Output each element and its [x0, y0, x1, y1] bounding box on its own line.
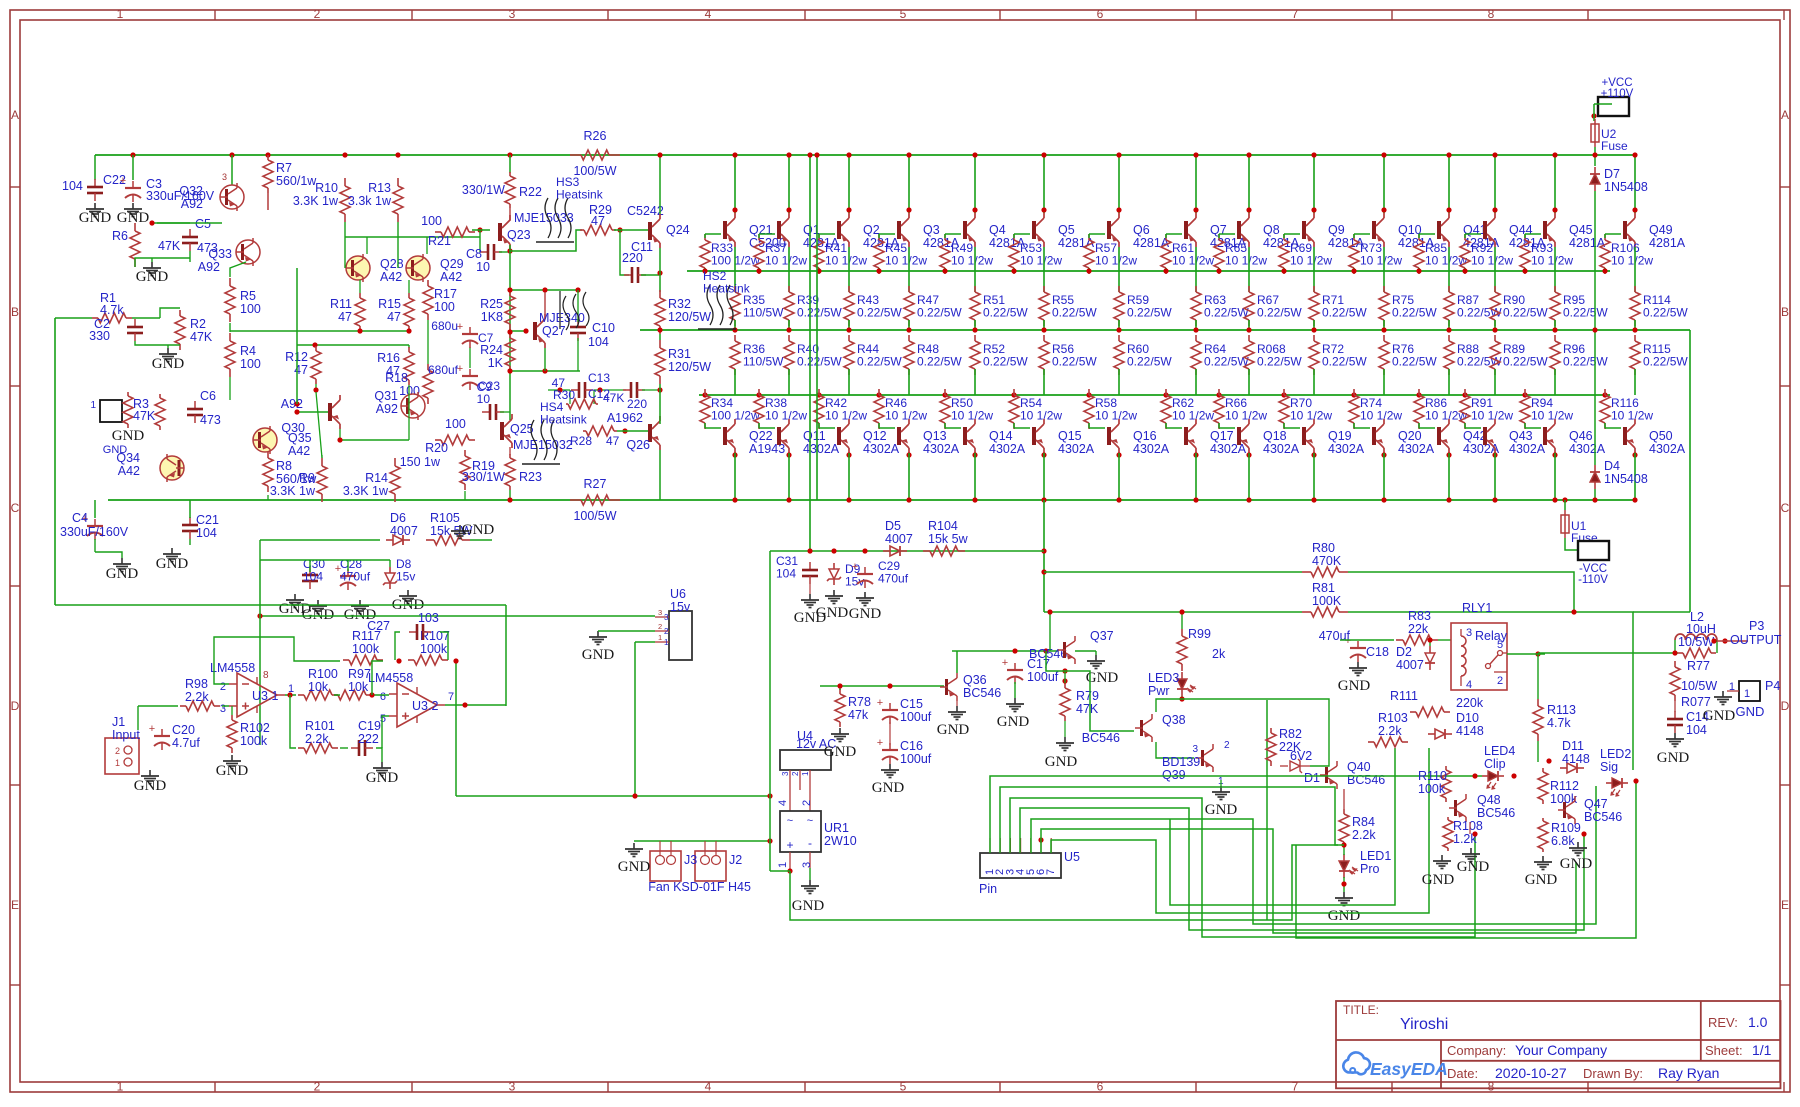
svg-text:R112: R112	[1550, 779, 1579, 793]
svg-text:Q36: Q36	[963, 673, 987, 687]
svg-text:2020-10-27: 2020-10-27	[1495, 1065, 1567, 1081]
svg-text:U3.1: U3.1	[252, 689, 278, 703]
svg-text:0.22/5W: 0.22/5W	[857, 355, 902, 369]
svg-text:U3.2: U3.2	[412, 699, 438, 713]
svg-text:10: 10	[476, 260, 490, 274]
svg-text:3.3K 1w: 3.3K 1w	[343, 484, 389, 498]
svg-text:+110V: +110V	[1601, 88, 1634, 100]
svg-text:R14: R14	[365, 471, 388, 485]
svg-text:10 1/2w: 10 1/2w	[1225, 254, 1267, 268]
svg-text:220: 220	[622, 251, 643, 265]
svg-text:A92: A92	[181, 197, 203, 211]
svg-text:Pin: Pin	[979, 882, 997, 896]
svg-text:D1: D1	[1304, 771, 1320, 785]
svg-text:1: 1	[117, 1080, 124, 1094]
svg-text:B: B	[11, 305, 19, 319]
svg-text:4302A: 4302A	[1398, 442, 1435, 456]
svg-text:R102: R102	[240, 721, 270, 735]
svg-text:4302A: 4302A	[1263, 442, 1300, 456]
svg-text:Q18: Q18	[1263, 429, 1287, 443]
svg-text:Q5: Q5	[1058, 223, 1075, 237]
svg-text:0.22/5W: 0.22/5W	[1052, 355, 1097, 369]
svg-text:680u: 680u	[431, 319, 458, 333]
svg-text:7: 7	[1045, 869, 1057, 875]
svg-text:10 1/2w: 10 1/2w	[825, 409, 867, 423]
svg-text:LED3: LED3	[1148, 671, 1179, 685]
svg-text:47K: 47K	[1076, 702, 1099, 716]
svg-text:Q28: Q28	[380, 257, 404, 271]
svg-text:0.22/5W: 0.22/5W	[1503, 355, 1548, 369]
svg-text:0.22/5W: 0.22/5W	[1643, 306, 1688, 320]
svg-text:R21: R21	[428, 234, 451, 248]
svg-text:Q17: Q17	[1210, 429, 1234, 443]
svg-text:47: 47	[294, 363, 308, 377]
svg-text:R20: R20	[425, 441, 448, 455]
svg-text:120/5W: 120/5W	[668, 310, 711, 324]
svg-text:GND: GND	[1422, 872, 1455, 888]
svg-text:4.7k: 4.7k	[100, 303, 124, 317]
svg-text:R4: R4	[240, 344, 256, 358]
svg-text:3: 3	[222, 172, 227, 182]
svg-text:0.22/5W: 0.22/5W	[1503, 306, 1548, 320]
svg-text:R24: R24	[480, 343, 503, 357]
svg-text:GND: GND	[618, 859, 651, 875]
svg-text:GND: GND	[582, 647, 615, 663]
svg-text:1N5408: 1N5408	[1604, 472, 1648, 486]
svg-text:Q14: Q14	[989, 429, 1013, 443]
svg-text:GND: GND	[134, 778, 167, 794]
svg-text:B: B	[1781, 305, 1789, 319]
svg-text:100/5W: 100/5W	[573, 164, 616, 178]
svg-text:KSD-01F H45: KSD-01F H45	[673, 880, 751, 894]
svg-text:0.22/5W: 0.22/5W	[1204, 306, 1249, 320]
svg-text:10 1/2w: 10 1/2w	[1290, 409, 1332, 423]
svg-text:GND: GND	[1525, 872, 1558, 888]
svg-text:R79: R79	[1076, 689, 1099, 703]
svg-text:GND: GND	[79, 210, 112, 226]
svg-text:330/1W: 330/1W	[462, 470, 505, 484]
svg-text:10 1/2w: 10 1/2w	[1611, 254, 1653, 268]
svg-text:GND: GND	[792, 898, 825, 914]
svg-text:OUTPUT: OUTPUT	[1730, 633, 1782, 647]
svg-text:4007: 4007	[1396, 658, 1424, 672]
svg-text:47K: 47K	[133, 409, 156, 423]
svg-text:0.22/5W: 0.22/5W	[1257, 355, 1302, 369]
svg-text:6: 6	[1097, 7, 1104, 21]
svg-text:GND: GND	[152, 356, 185, 372]
svg-text:Q26: Q26	[626, 438, 650, 452]
svg-text:GND: GND	[849, 606, 882, 622]
svg-text:0.22/5W: 0.22/5W	[1127, 306, 1172, 320]
svg-text:R78: R78	[848, 695, 871, 709]
svg-text:Q25: Q25	[510, 422, 534, 436]
svg-text:470uf: 470uf	[878, 572, 909, 586]
svg-text:3: 3	[801, 862, 813, 868]
svg-text:R9: R9	[299, 471, 315, 485]
svg-text:A92: A92	[376, 402, 398, 416]
svg-text:7: 7	[1292, 7, 1299, 21]
svg-text:P4: P4	[1765, 679, 1780, 693]
svg-text:2: 2	[658, 622, 662, 631]
svg-text:0.22/5W: 0.22/5W	[797, 355, 842, 369]
svg-text:A42: A42	[380, 270, 402, 284]
svg-text:473: 473	[200, 413, 221, 427]
svg-text:R99: R99	[1188, 627, 1211, 641]
svg-text:R077: R077	[1681, 695, 1711, 709]
svg-text:100k: 100k	[352, 642, 380, 656]
svg-text:GND: GND	[216, 763, 249, 779]
svg-text:C: C	[11, 501, 20, 515]
svg-text:GND: GND	[937, 722, 970, 738]
svg-text:10 1/2w: 10 1/2w	[765, 409, 807, 423]
svg-text:LED2: LED2	[1600, 747, 1631, 761]
svg-text:5: 5	[1497, 639, 1503, 651]
svg-text:5: 5	[900, 1080, 907, 1094]
svg-text:D: D	[1781, 699, 1790, 713]
svg-text:Q47: Q47	[1584, 797, 1608, 811]
svg-text:6: 6	[1097, 1080, 1104, 1094]
svg-text:GND: GND	[462, 522, 495, 538]
svg-text:10 1/2w: 10 1/2w	[825, 254, 867, 268]
svg-text:10 1/2w: 10 1/2w	[951, 254, 993, 268]
svg-text:R109: R109	[1551, 821, 1581, 835]
svg-text:C5: C5	[195, 217, 211, 231]
svg-text:0.22/5W: 0.22/5W	[917, 306, 962, 320]
svg-text:0.22/5W: 0.22/5W	[983, 306, 1028, 320]
svg-text:R27: R27	[584, 477, 607, 491]
svg-text:+: +	[786, 838, 793, 852]
svg-text:2k: 2k	[1212, 647, 1226, 661]
svg-text:Heatsink: Heatsink	[556, 188, 604, 202]
svg-text:Q46: Q46	[1569, 429, 1593, 443]
svg-text:R7: R7	[276, 161, 292, 175]
svg-text:C4: C4	[72, 511, 88, 525]
svg-text:D4: D4	[1604, 459, 1620, 473]
svg-text:UR1: UR1	[824, 821, 849, 835]
svg-text:EasyEDA: EasyEDA	[1370, 1059, 1448, 1079]
svg-text:4148: 4148	[1562, 752, 1590, 766]
svg-text:A42: A42	[288, 444, 310, 458]
svg-text:Q24: Q24	[666, 223, 690, 237]
svg-text:220k: 220k	[1456, 696, 1484, 710]
svg-text:R84: R84	[1352, 815, 1375, 829]
svg-text:GND: GND	[136, 269, 169, 285]
svg-text:2.2k: 2.2k	[185, 690, 209, 704]
svg-text:Q37: Q37	[1090, 629, 1114, 643]
svg-text:100k: 100k	[1418, 782, 1446, 796]
svg-text:BC546: BC546	[1029, 647, 1067, 661]
svg-text:Sig: Sig	[1600, 760, 1618, 774]
svg-text:2: 2	[220, 681, 226, 693]
svg-text:4007: 4007	[390, 524, 418, 538]
svg-text:Q43: Q43	[1509, 429, 1533, 443]
svg-text:Ray Ryan: Ray Ryan	[1658, 1065, 1719, 1081]
svg-text:R13: R13	[368, 181, 391, 195]
svg-text:R10: R10	[315, 181, 338, 195]
svg-text:100uf: 100uf	[900, 752, 932, 766]
svg-text:104: 104	[196, 526, 217, 540]
svg-text:4302A: 4302A	[863, 442, 900, 456]
svg-text:R18: R18	[385, 371, 408, 385]
svg-text:Q8: Q8	[1263, 223, 1280, 237]
svg-text:R8: R8	[276, 459, 292, 473]
svg-text:E: E	[11, 898, 19, 912]
svg-text:110/5W: 110/5W	[743, 355, 784, 369]
svg-text:C20: C20	[172, 723, 195, 737]
svg-text:D10: D10	[1456, 711, 1479, 725]
svg-text:BC546: BC546	[963, 686, 1001, 700]
svg-text:8: 8	[1488, 7, 1495, 21]
svg-text:10 1/2w: 10 1/2w	[1290, 254, 1332, 268]
svg-text:10 1/2w: 10 1/2w	[1172, 254, 1214, 268]
svg-text:D5: D5	[885, 519, 901, 533]
svg-text:BC546: BC546	[1477, 806, 1515, 820]
svg-text:3: 3	[664, 613, 669, 622]
svg-text:10 1/2w: 10 1/2w	[765, 254, 807, 268]
svg-text:15k 5w: 15k 5w	[928, 532, 969, 546]
svg-text:0.22/5W: 0.22/5W	[1643, 355, 1688, 369]
svg-text:GND: GND	[1045, 754, 1078, 770]
svg-text:Q49: Q49	[1649, 223, 1673, 237]
svg-text:10 1/2w: 10 1/2w	[1471, 254, 1513, 268]
svg-text:0.22/5W: 0.22/5W	[1204, 355, 1249, 369]
svg-text:R28: R28	[570, 434, 592, 448]
svg-text:10 1/2w: 10 1/2w	[1531, 254, 1573, 268]
svg-text:Fan: Fan	[648, 880, 670, 894]
svg-text:GND: GND	[1657, 750, 1690, 766]
svg-text:D6: D6	[390, 511, 406, 525]
svg-text:R113: R113	[1547, 703, 1576, 717]
svg-text:0.22/5W: 0.22/5W	[1392, 306, 1437, 320]
svg-text:C6: C6	[200, 389, 216, 403]
svg-text:R110: R110	[1418, 769, 1447, 783]
svg-text:7: 7	[448, 691, 454, 703]
svg-text:Fuse: Fuse	[1601, 139, 1628, 153]
svg-text:47: 47	[606, 434, 620, 448]
svg-text:D11: D11	[1562, 739, 1584, 753]
svg-text:Q20: Q20	[1398, 429, 1422, 443]
svg-text:R17: R17	[434, 287, 457, 301]
svg-text:470uf: 470uf	[1319, 629, 1351, 643]
svg-text:1: 1	[658, 633, 662, 642]
svg-text:Q11: Q11	[803, 429, 826, 443]
svg-text:R83: R83	[1408, 609, 1431, 623]
svg-text:330: 330	[89, 329, 110, 343]
svg-text:2: 2	[314, 7, 321, 21]
svg-text:BC546: BC546	[1347, 773, 1385, 787]
svg-text:0.22/5W: 0.22/5W	[1563, 306, 1608, 320]
svg-text:Q27: Q27	[542, 324, 566, 338]
svg-text:R11: R11	[330, 297, 352, 311]
svg-text:10uH: 10uH	[1686, 622, 1716, 636]
svg-text:R5: R5	[240, 289, 256, 303]
svg-text:4: 4	[777, 800, 789, 806]
svg-text:GND: GND	[1338, 678, 1371, 694]
svg-text:2: 2	[801, 800, 813, 806]
svg-text:+: +	[852, 561, 858, 573]
svg-text:10 1/2w: 10 1/2w	[1360, 409, 1402, 423]
svg-text:3.3k 1w: 3.3k 1w	[348, 194, 392, 208]
svg-text:+: +	[877, 737, 883, 749]
svg-text:3.3K 1w: 3.3K 1w	[270, 484, 316, 498]
svg-text:+: +	[149, 723, 155, 735]
svg-text:GND: GND	[156, 556, 189, 572]
svg-text:3: 3	[509, 1080, 516, 1094]
svg-text:10 1/2w: 10 1/2w	[1172, 409, 1214, 423]
svg-text:Q10: Q10	[1398, 223, 1422, 237]
svg-text:Q31: Q31	[374, 389, 398, 403]
svg-text:4302A: 4302A	[1058, 442, 1095, 456]
svg-text:GND: GND	[872, 780, 905, 796]
svg-text:10 1/2w: 10 1/2w	[1360, 254, 1402, 268]
svg-text:R32: R32	[668, 297, 691, 311]
svg-text:10 1/2w: 10 1/2w	[951, 409, 993, 423]
svg-text:47k: 47k	[848, 708, 869, 722]
svg-text:103: 103	[418, 611, 439, 625]
svg-text:Q13: Q13	[923, 429, 947, 443]
svg-text:Q30: Q30	[281, 421, 305, 435]
svg-text:REV:: REV:	[1708, 1015, 1738, 1030]
svg-text:5: 5	[900, 7, 907, 21]
svg-text:4.7uf: 4.7uf	[172, 736, 200, 750]
svg-text:3: 3	[1466, 627, 1472, 639]
svg-text:C21: C21	[196, 513, 219, 527]
svg-text:Q16: Q16	[1133, 429, 1157, 443]
svg-text:0.22/5W: 0.22/5W	[1322, 306, 1367, 320]
svg-text:10 1/2w: 10 1/2w	[1611, 409, 1653, 423]
svg-text:473: 473	[197, 241, 218, 255]
svg-text:10 1/2w: 10 1/2w	[885, 254, 927, 268]
svg-text:Q4: Q4	[989, 223, 1006, 237]
svg-text:4148: 4148	[1456, 724, 1484, 738]
svg-text:1: 1	[664, 638, 669, 647]
svg-text:Q48: Q48	[1477, 793, 1501, 807]
svg-text:1: 1	[777, 862, 789, 868]
svg-text:100uf: 100uf	[1027, 670, 1059, 684]
svg-text:~: ~	[807, 815, 813, 827]
svg-text:MJE15032: MJE15032	[513, 438, 573, 452]
svg-text:Q45: Q45	[1569, 223, 1593, 237]
svg-text:560/1w: 560/1w	[276, 174, 317, 188]
svg-text:Pwr: Pwr	[1148, 684, 1170, 698]
svg-text:LM4558: LM4558	[210, 661, 255, 675]
svg-text:R26: R26	[584, 129, 607, 143]
svg-text:0.22/5W: 0.22/5W	[983, 355, 1028, 369]
svg-text:0.22/5W: 0.22/5W	[917, 355, 962, 369]
svg-text:4302A: 4302A	[1133, 442, 1170, 456]
svg-text:7: 7	[1292, 1080, 1299, 1094]
svg-text:C18: C18	[1366, 645, 1389, 659]
svg-text:BC546: BC546	[1584, 810, 1622, 824]
svg-text:222: 222	[358, 732, 379, 746]
svg-text:Q6: Q6	[1133, 223, 1150, 237]
svg-text:100uf: 100uf	[900, 710, 932, 724]
svg-text:10 1/2w: 10 1/2w	[1020, 409, 1062, 423]
svg-text:1: 1	[1744, 688, 1750, 700]
svg-text:Your Company: Your Company	[1515, 1042, 1607, 1058]
svg-text:C: C	[1781, 501, 1790, 515]
svg-text:GND: GND	[824, 744, 857, 760]
svg-text:R111: R111	[1390, 689, 1418, 703]
svg-text:-110V: -110V	[1578, 574, 1608, 586]
svg-text:22k: 22k	[1408, 622, 1429, 636]
svg-text:1: 1	[117, 7, 124, 21]
svg-text:GND: GND	[1457, 859, 1490, 875]
svg-text:A42: A42	[440, 270, 462, 284]
svg-text:R107: R107	[420, 629, 450, 643]
svg-text:LM4558: LM4558	[368, 671, 413, 685]
svg-text:C12: C12	[588, 387, 610, 401]
svg-text:104: 104	[1686, 723, 1707, 737]
svg-text:Pro: Pro	[1360, 862, 1380, 876]
svg-text:0.22/5W: 0.22/5W	[1127, 355, 1172, 369]
svg-text:GND: GND	[1736, 704, 1765, 719]
svg-text:4302A: 4302A	[1210, 442, 1247, 456]
svg-text:Q22: Q22	[749, 429, 773, 443]
svg-text:Drawn By:: Drawn By:	[1583, 1066, 1643, 1081]
svg-text:6: 6	[380, 691, 386, 703]
svg-text:R104: R104	[928, 519, 958, 533]
svg-text:150 1w: 150 1w	[400, 455, 441, 469]
svg-text:Yiroshi: Yiroshi	[1400, 1016, 1448, 1033]
svg-text:-: -	[808, 836, 812, 850]
svg-text:110/5W: 110/5W	[743, 306, 784, 320]
svg-text:4.7k: 4.7k	[1547, 716, 1571, 730]
svg-text:GND: GND	[1328, 908, 1361, 924]
svg-text:0.22/5W: 0.22/5W	[857, 306, 902, 320]
svg-text:Clip: Clip	[1484, 757, 1506, 771]
svg-text:2: 2	[1497, 675, 1503, 687]
svg-text:15v: 15v	[670, 600, 691, 614]
svg-text:100K: 100K	[1312, 594, 1342, 608]
svg-text:GND: GND	[1703, 708, 1736, 724]
svg-text:A: A	[1781, 108, 1789, 122]
svg-text:R22: R22	[519, 185, 542, 199]
svg-text:Q39: Q39	[1162, 768, 1186, 782]
svg-text:Heatsink: Heatsink	[703, 282, 751, 296]
svg-text:4302A: 4302A	[923, 442, 960, 456]
svg-text:GND: GND	[106, 566, 139, 582]
svg-text:C10: C10	[592, 321, 615, 335]
svg-text:Fuse: Fuse	[1571, 531, 1598, 545]
svg-text:R23: R23	[519, 470, 542, 484]
svg-text:100: 100	[445, 417, 466, 431]
svg-text:GND: GND	[997, 714, 1030, 730]
svg-text:220: 220	[627, 397, 647, 411]
svg-text:D7: D7	[1604, 167, 1620, 181]
svg-text:4007: 4007	[885, 532, 913, 546]
svg-text:8: 8	[1488, 1080, 1495, 1094]
svg-text:100: 100	[240, 357, 261, 371]
svg-text:GND: GND	[366, 770, 399, 786]
svg-text:470K: 470K	[1312, 554, 1342, 568]
svg-text:C8: C8	[466, 247, 482, 261]
svg-text:10 1/2w: 10 1/2w	[1020, 254, 1062, 268]
svg-text:+: +	[1002, 657, 1008, 669]
svg-text:+: +	[877, 697, 883, 709]
svg-text:GND: GND	[1560, 856, 1593, 872]
svg-text:2: 2	[791, 771, 800, 776]
svg-text:~: ~	[787, 815, 793, 827]
svg-text:R80: R80	[1312, 541, 1335, 555]
svg-text:Company:: Company:	[1447, 1043, 1506, 1058]
svg-text:10 1/2w: 10 1/2w	[1095, 254, 1137, 268]
svg-text:A: A	[11, 108, 19, 122]
svg-text:Q50: Q50	[1649, 429, 1673, 443]
svg-text:C5242: C5242	[627, 204, 664, 218]
svg-text:Q2: Q2	[863, 223, 880, 237]
svg-text:BD139: BD139	[1162, 755, 1200, 769]
